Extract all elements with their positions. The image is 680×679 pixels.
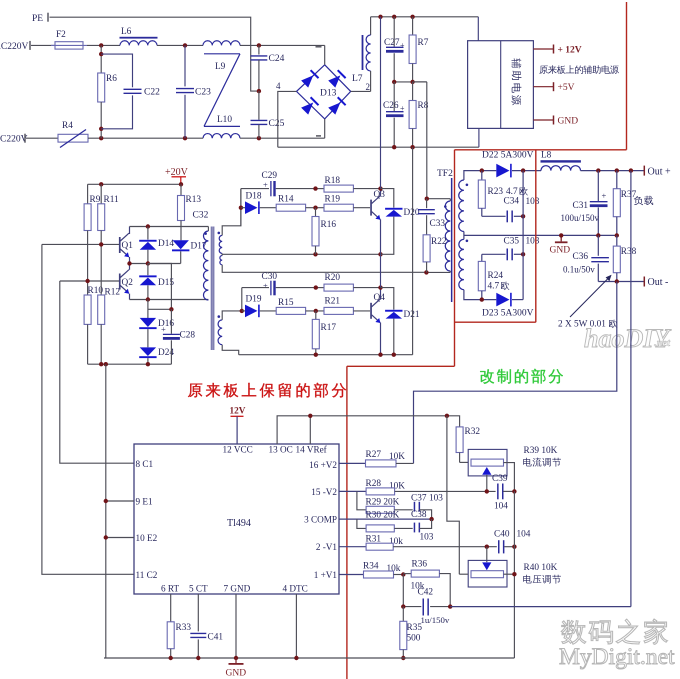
node — [596, 168, 600, 172]
svg-text:D22 5A300V: D22 5A300V — [482, 151, 534, 161]
terminal Out+ — [644, 166, 671, 178]
svg-text:+: + — [263, 180, 268, 190]
svg-text:R30 20K: R30 20K — [366, 511, 400, 521]
wire Q1 base — [42, 243, 120, 245]
svg-text:10 E2: 10 E2 — [136, 533, 158, 543]
wire minus bus — [278, 146, 479, 148]
node — [485, 545, 489, 549]
wire OC-VRef net — [277, 416, 460, 444]
svg-text:D18: D18 — [246, 192, 262, 202]
svg-text:R35: R35 — [407, 623, 423, 633]
svg-text:C25: C25 — [269, 119, 285, 129]
watermark shuma zhijia — [561, 619, 667, 644]
node — [401, 604, 405, 608]
wire vsense feedback — [630, 171, 632, 607]
svg-text:4.7: 4.7 — [506, 187, 518, 197]
resistor R19 — [324, 195, 370, 212]
node — [240, 309, 244, 313]
svg-text:C39: C39 — [492, 474, 508, 484]
svg-text:C40: C40 — [494, 530, 510, 540]
bridge diode UL — [301, 69, 320, 88]
capacitor C37 — [411, 493, 443, 519]
svg-text:C31: C31 — [573, 201, 589, 211]
svg-text:11 C2: 11 C2 — [136, 570, 158, 580]
node — [615, 233, 619, 237]
wire cathode bus — [522, 171, 524, 300]
svg-text:MyDigit.net: MyDigit.net — [559, 644, 675, 670]
node — [448, 604, 452, 608]
capacitor C30 — [242, 272, 316, 295]
node — [512, 572, 516, 576]
svg-text:F2: F2 — [56, 30, 66, 40]
svg-text:C32: C32 — [193, 211, 209, 221]
wire pin4 dtc — [295, 594, 297, 658]
wire ref jog — [447, 416, 459, 574]
svg-text:103: 103 — [526, 237, 540, 247]
svg-text:6 RT: 6 RT — [161, 583, 179, 593]
node — [445, 414, 449, 418]
svg-text:103: 103 — [429, 493, 443, 503]
node — [127, 261, 131, 265]
svg-text:2: 2 — [366, 82, 371, 92]
diode D17 — [172, 240, 207, 263]
svg-text:R40 10K: R40 10K — [524, 563, 558, 573]
potentiometer R40 — [459, 547, 561, 587]
fuse F2 — [51, 30, 87, 49]
transformer TF2 secondary — [459, 180, 468, 290]
wire out- row — [598, 281, 644, 283]
wire HV bus — [380, 17, 382, 189]
wire C1 vertical — [60, 281, 134, 463]
resistor R23 — [478, 171, 528, 217]
pin 9 E1 — [104, 496, 153, 506]
node — [314, 353, 318, 357]
resistor R38 — [613, 235, 636, 281]
svg-text:+: + — [602, 191, 607, 201]
svg-text:R34: R34 — [363, 562, 379, 572]
label C32 — [193, 211, 209, 221]
pin 5 CT — [189, 583, 208, 593]
svg-text:R27: R27 — [366, 450, 382, 460]
node — [429, 517, 433, 521]
diode D24 — [139, 347, 174, 364]
node — [410, 80, 414, 84]
wire negative bus down — [412, 147, 414, 355]
wire gnd mid rail — [464, 234, 617, 236]
svg-text:R20: R20 — [325, 273, 341, 283]
node — [85, 279, 89, 283]
capacitor C34 — [482, 197, 540, 223]
resistor R13 — [178, 184, 202, 240]
bridge diode LR — [328, 97, 347, 116]
svg-text:104: 104 — [517, 530, 531, 540]
wire bottom rail — [104, 657, 514, 659]
bridge D13 frame — [297, 65, 351, 119]
svg-text:104: 104 — [494, 502, 508, 512]
capacitor C41 — [190, 594, 223, 658]
wire red top — [455, 149, 627, 151]
wire to TF2 primary top — [413, 82, 427, 199]
svg-text:R18: R18 — [325, 176, 341, 186]
svg-text:+5V: +5V — [558, 83, 575, 93]
svg-text:16 +V2: 16 +V2 — [309, 460, 337, 470]
svg-text:2 -V1: 2 -V1 — [316, 542, 338, 552]
node — [183, 43, 187, 47]
node — [234, 656, 238, 660]
node — [146, 261, 150, 265]
wire red box bottom — [455, 321, 536, 323]
resistor R28 — [339, 479, 496, 495]
wire bias rail — [88, 183, 181, 185]
wire branch left — [240, 189, 242, 226]
capacitor C39 — [492, 474, 514, 512]
node — [257, 43, 261, 47]
wire switch-node rail — [222, 253, 380, 255]
node — [596, 233, 600, 237]
node — [99, 362, 103, 366]
svg-text:+: + — [400, 41, 405, 50]
svg-text:R17: R17 — [321, 323, 337, 333]
wire bridge right — [351, 82, 371, 92]
svg-text:Q1: Q1 — [122, 241, 134, 251]
terminal +5V — [533, 82, 574, 93]
pin 6 RT — [161, 583, 179, 593]
svg-text:12 VCC: 12 VCC — [223, 444, 253, 454]
pin 2 -V1 — [316, 542, 338, 552]
node — [146, 362, 150, 366]
wire TF2 primary bottom — [426, 271, 450, 273]
svg-text:L6: L6 — [121, 27, 132, 37]
capacitor C28 — [161, 309, 195, 364]
wire Q2 base — [60, 280, 120, 282]
resistor R14 — [276, 195, 324, 212]
svg-text:D23 5A300V: D23 5A300V — [482, 309, 534, 319]
driver xfmr secondary 3 — [218, 311, 242, 355]
pin 11 C2 — [136, 570, 158, 580]
svg-text:R14: R14 — [278, 195, 294, 205]
svg-text:R6: R6 — [106, 74, 117, 84]
wire collector rail — [130, 226, 209, 228]
capacitor C25 — [251, 91, 285, 138]
pin 12 VCC — [223, 444, 253, 454]
resistor R21 — [324, 297, 370, 315]
label sense resistors — [558, 275, 617, 330]
ground GND bottom — [226, 658, 247, 679]
svg-text:R24: R24 — [488, 271, 504, 281]
svg-text:C28: C28 — [180, 331, 196, 341]
wire vsense row — [450, 606, 631, 608]
wire AC bottom — [88, 137, 325, 139]
node — [257, 89, 261, 93]
node — [401, 656, 405, 660]
resistor R20 — [316, 273, 381, 291]
svg-text:Q2: Q2 — [122, 278, 134, 288]
varistor R4 — [0, 121, 88, 148]
node — [559, 233, 563, 237]
svg-text:R13: R13 — [186, 195, 202, 205]
node — [629, 168, 633, 172]
wire pin7 gnd — [235, 594, 237, 658]
node — [378, 353, 382, 357]
svg-text:8 C1: 8 C1 — [136, 459, 154, 469]
transistor Q3 — [370, 189, 385, 255]
transistor Q4 — [370, 288, 385, 355]
diode D20 — [381, 189, 420, 255]
svg-text:+: + — [161, 324, 166, 334]
node — [99, 136, 103, 140]
terminal +12V — [533, 45, 581, 56]
resistor R32 — [456, 427, 480, 463]
svg-text:R21: R21 — [325, 297, 341, 307]
node — [615, 168, 619, 172]
wire mid junction — [394, 81, 427, 83]
svg-text:R4: R4 — [62, 121, 73, 131]
driver xfmr secondary 2 — [220, 254, 427, 273]
node — [378, 285, 382, 289]
resistor R8 — [409, 82, 429, 147]
svg-text:100u/150v: 100u/150v — [561, 213, 600, 223]
diode D22 — [482, 151, 541, 178]
capacitor C42 — [403, 575, 450, 626]
diode D23 — [482, 293, 534, 319]
svg-text:0.1u/50v: 0.1u/50v — [563, 265, 595, 275]
capacitor C22 — [101, 54, 160, 129]
node — [378, 186, 382, 190]
wire Q2 emitter rail — [130, 299, 209, 301]
capacitor C35 — [482, 237, 540, 261]
caption kept-part — [188, 383, 346, 398]
resistor R17 — [312, 311, 336, 355]
svg-text:L7: L7 — [352, 74, 363, 84]
diode D19 — [242, 295, 276, 318]
node — [99, 182, 103, 186]
wire C2 vertical — [42, 244, 134, 574]
pin 8 C1 — [136, 459, 154, 469]
node — [314, 285, 318, 289]
resistor R31 — [339, 535, 497, 551]
diode D16 — [139, 300, 174, 348]
node — [521, 252, 525, 256]
node — [183, 136, 187, 140]
bridge diode UR — [328, 69, 347, 88]
label load — [634, 196, 653, 205]
capacitor C23 — [176, 45, 211, 138]
svg-text:D19: D19 — [246, 295, 262, 305]
wire red vertical — [346, 366, 348, 679]
pin 15 -V2 — [311, 487, 337, 497]
svg-text:R7: R7 — [418, 38, 429, 48]
pin 7 GND — [224, 583, 251, 593]
node — [378, 252, 382, 256]
node — [512, 545, 516, 549]
node — [146, 297, 150, 301]
wire aux bottom lead — [478, 128, 480, 147]
svg-text:GND: GND — [558, 117, 579, 127]
resistor R36 — [403, 560, 450, 607]
node — [169, 307, 173, 311]
resistor R10 — [84, 281, 103, 364]
node — [410, 15, 414, 19]
svg-text:AC220V: AC220V — [0, 42, 28, 52]
svg-text:103: 103 — [420, 533, 434, 543]
transformer TF2 core — [451, 178, 453, 302]
wire red riser — [626, 2, 628, 150]
node — [314, 309, 318, 313]
svg-text:Out -: Out - — [648, 277, 669, 288]
resistor R16 — [312, 208, 336, 255]
svg-text:Tl494: Tl494 — [227, 518, 251, 529]
svg-text:R23: R23 — [488, 187, 504, 197]
svg-text:1u/150v: 1u/150v — [421, 615, 450, 625]
node — [401, 572, 405, 576]
bridge diode LL — [301, 97, 320, 116]
inductor L10 — [203, 115, 240, 138]
resistor R24 — [478, 254, 509, 299]
diode D14 — [139, 227, 174, 264]
node — [313, 252, 317, 256]
watermark haoDIY.net — [584, 324, 671, 353]
wire TF2 primary top — [427, 198, 451, 200]
svg-text:R39 10K: R39 10K — [524, 446, 558, 456]
svg-text:C34: C34 — [504, 197, 520, 207]
node — [104, 362, 108, 366]
svg-text:R15: R15 — [278, 298, 294, 308]
node — [410, 145, 414, 149]
node — [99, 52, 103, 56]
transistor Q2 — [119, 264, 133, 300]
svg-text:L9: L9 — [215, 62, 226, 72]
wire branch left lower — [241, 288, 243, 311]
capacitor C29 — [241, 171, 316, 196]
pin 10 E2 — [104, 533, 158, 543]
svg-text:C22: C22 — [144, 88, 160, 98]
inductor L8 — [541, 151, 645, 171]
svg-text:C220V: C220V — [0, 135, 28, 145]
wire — [87, 44, 120, 46]
label aux chinese — [539, 65, 619, 74]
svg-text:R32: R32 — [465, 427, 481, 437]
capacitor C33 — [418, 199, 446, 235]
transistor Q1 — [119, 227, 133, 264]
resistor R37 — [613, 171, 636, 236]
node — [146, 224, 150, 228]
node — [378, 15, 382, 19]
svg-text:C42: C42 — [418, 588, 434, 598]
node — [99, 43, 103, 47]
node — [239, 206, 243, 210]
resistor R18 — [316, 176, 381, 192]
terminal Out- — [644, 277, 668, 289]
resistor R7 — [409, 17, 429, 82]
wire COMP row — [339, 518, 432, 520]
wire bridge bottom — [316, 119, 325, 138]
svg-text:C41: C41 — [208, 633, 224, 643]
wire emitter bus down — [105, 364, 107, 658]
wire emitter2 rail — [239, 354, 413, 356]
terminal AC220V line1 — [0, 41, 55, 52]
node — [480, 297, 484, 301]
node — [313, 206, 317, 210]
svg-text:D21: D21 — [404, 310, 420, 320]
wire bridge left out — [276, 81, 297, 147]
svg-text:Q4: Q4 — [374, 293, 386, 303]
svg-text:3 COMP: 3 COMP — [304, 514, 337, 524]
watermark MyDigit.net — [559, 644, 675, 670]
ground GND — [550, 235, 571, 255]
terminal PE — [32, 13, 48, 24]
node — [179, 182, 183, 186]
driver transformer primary — [203, 227, 208, 301]
wire — [240, 44, 325, 46]
svg-text:R19: R19 — [325, 195, 341, 205]
svg-text:PE: PE — [32, 14, 43, 24]
wire red jog — [347, 365, 455, 367]
terminal +20V — [165, 167, 189, 184]
svg-text:L8: L8 — [541, 151, 552, 161]
resistor R9 — [84, 184, 101, 281]
resistor R27 — [339, 450, 414, 467]
svg-text:R36: R36 — [412, 560, 428, 570]
svg-text:5 CT: 5 CT — [189, 583, 208, 593]
resistor R12 — [98, 244, 121, 364]
node — [257, 136, 261, 140]
wire emitter row — [130, 263, 181, 265]
node — [294, 656, 298, 660]
wire PE — [50, 17, 259, 91]
caption modified-part — [480, 369, 563, 384]
resistor R11 — [98, 184, 119, 244]
svg-text:4 DTC: 4 DTC — [283, 583, 308, 593]
diode D15 — [139, 264, 174, 300]
capacitor C38 — [411, 510, 434, 543]
label TF2 — [437, 169, 453, 179]
pin 14 VRef — [296, 444, 328, 454]
pin 1 +V1 — [314, 570, 338, 580]
wire red box left — [454, 150, 456, 366]
svg-text:C23: C23 — [195, 88, 211, 98]
svg-text:Q3: Q3 — [374, 190, 386, 200]
resistor R34 — [339, 562, 403, 579]
capacitor C27 — [384, 17, 405, 82]
svg-text:GND: GND — [550, 246, 571, 256]
node — [521, 214, 525, 218]
capacitor C31 — [561, 171, 608, 236]
svg-text:C27: C27 — [384, 38, 400, 48]
svg-text:1 +V1: 1 +V1 — [314, 570, 338, 580]
node — [99, 242, 103, 246]
svg-text:L10: L10 — [217, 115, 232, 125]
wire switch node — [380, 254, 382, 287]
svg-text:12V: 12V — [230, 406, 246, 416]
wire driver gnd rail — [88, 363, 172, 365]
svg-text:D20: D20 — [404, 208, 420, 218]
pin 13 OC — [269, 444, 293, 454]
node — [196, 656, 200, 660]
node — [392, 80, 396, 84]
svg-text:C24: C24 — [269, 54, 285, 64]
aux supply box — [468, 41, 534, 129]
svg-text:103: 103 — [526, 197, 540, 207]
svg-text:D13: D13 — [320, 89, 337, 99]
svg-text:R38: R38 — [621, 247, 637, 257]
wire aux drop — [477, 17, 479, 41]
wire C28 hook — [148, 264, 172, 310]
node — [521, 168, 525, 172]
resistor R35 — [400, 607, 423, 658]
svg-text:14 VRef: 14 VRef — [296, 444, 328, 454]
wire top rail — [371, 16, 479, 18]
node — [313, 186, 317, 190]
